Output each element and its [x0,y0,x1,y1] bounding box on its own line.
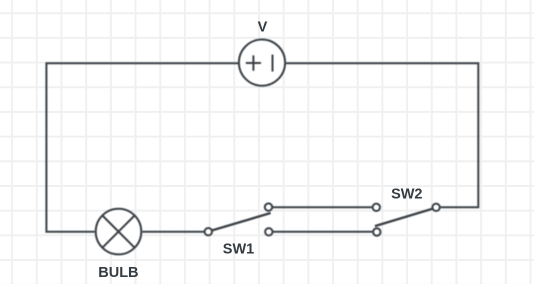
bulb BULB [96,209,142,255]
voltage source V [239,40,285,86]
svg-text:V: V [258,19,268,35]
svg-text:BULB: BULB [98,265,138,281]
wire [273,231,374,233]
switch SW1 [205,203,273,235]
wire [286,63,478,207]
svg-text:SW2: SW2 [391,187,422,203]
wire [46,63,238,232]
switch SW2 [373,204,440,236]
wire [273,206,373,208]
svg-text:SW1: SW1 [223,241,254,257]
wire [142,231,204,233]
